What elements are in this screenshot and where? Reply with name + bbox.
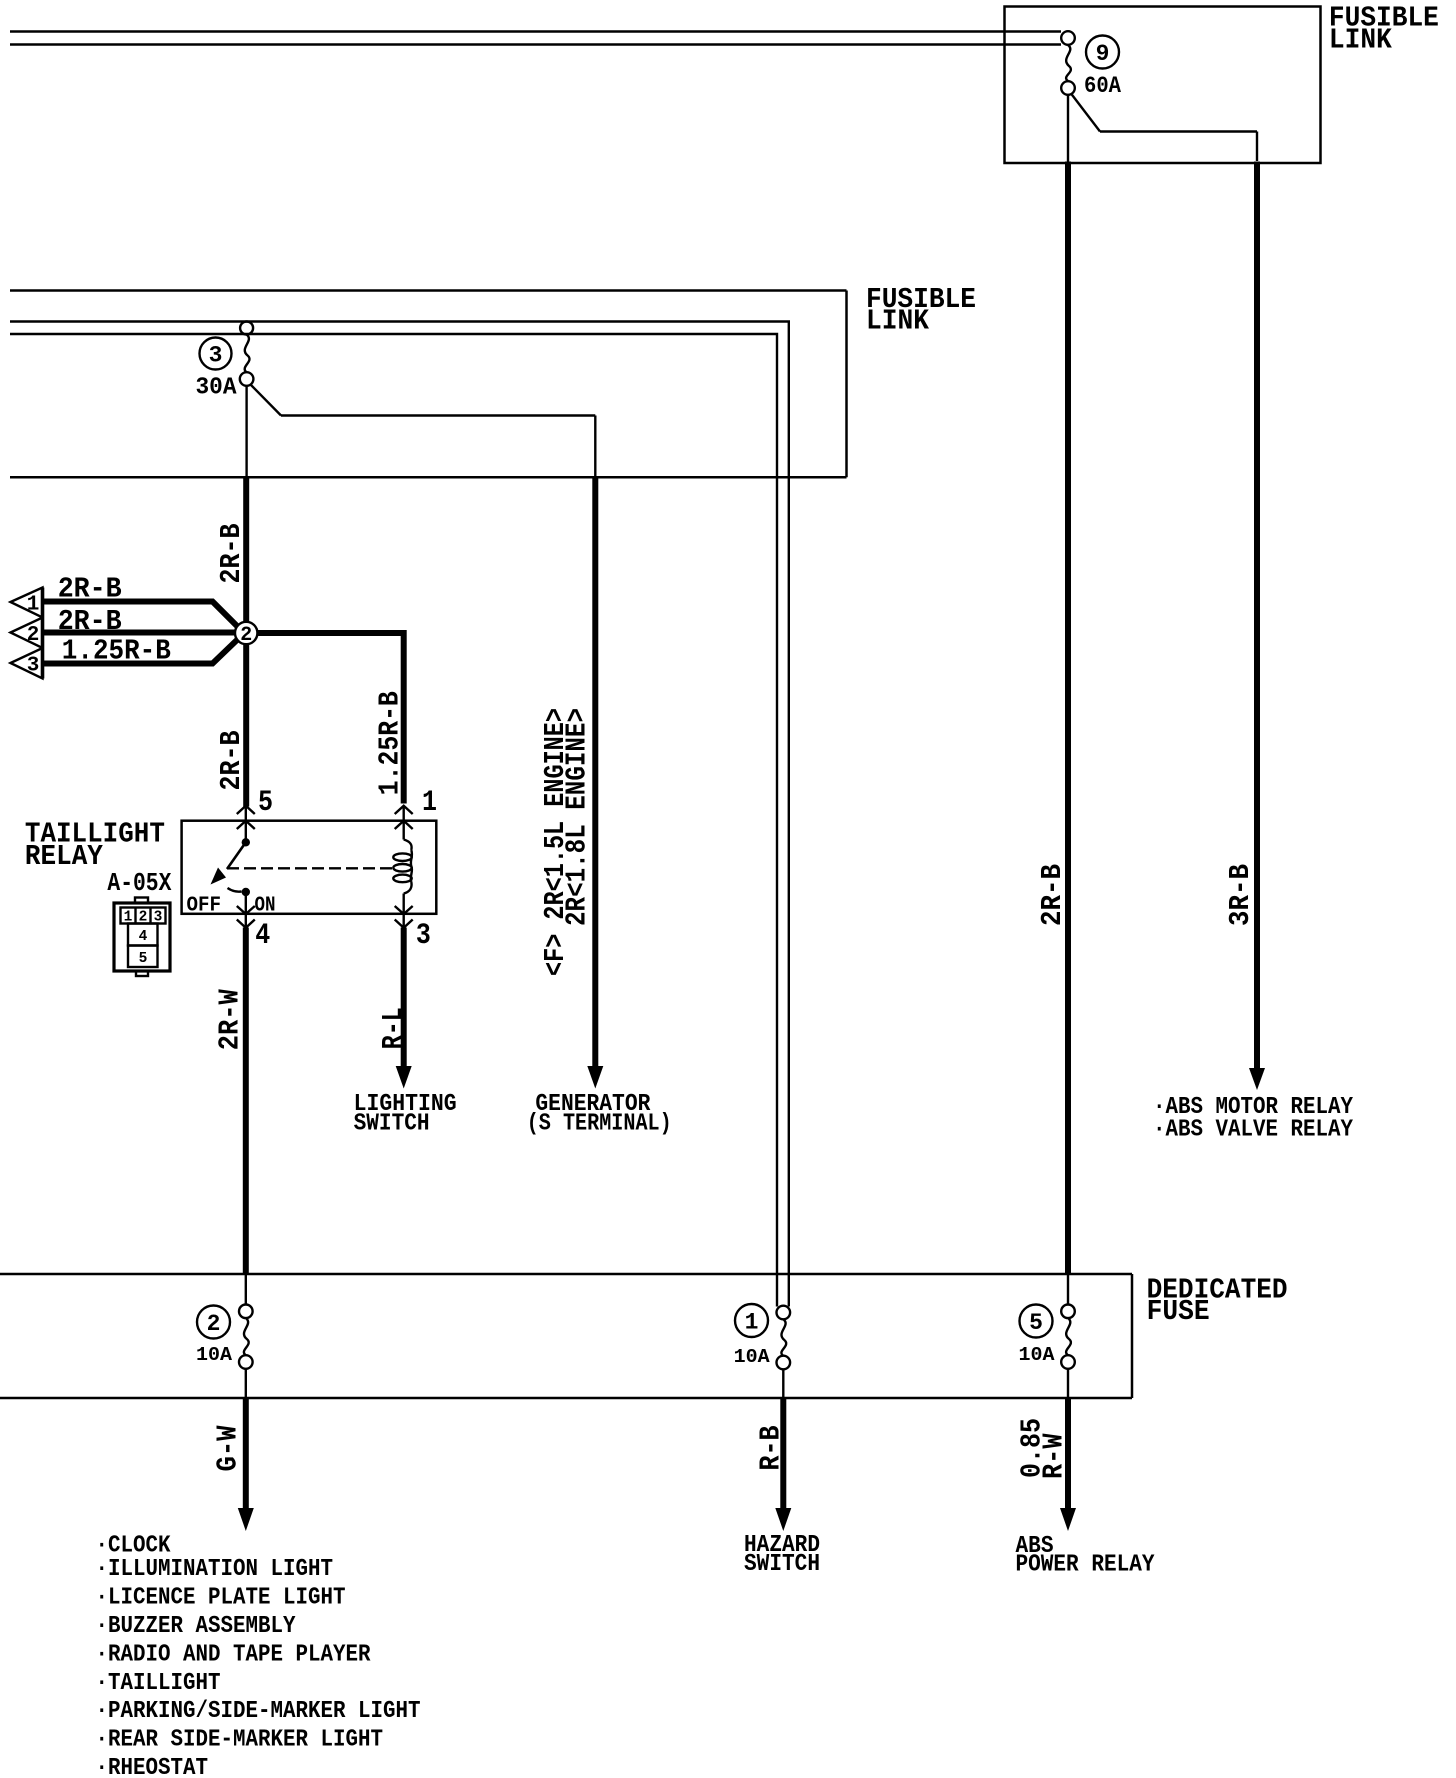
svg-text:10A: 10A bbox=[196, 1344, 233, 1366]
pin number 1 bbox=[422, 786, 437, 820]
text: LIGHTING SWITCH bbox=[354, 1091, 457, 1138]
pin 4 connector arrows bbox=[237, 906, 255, 928]
svg-text:10A: 10A bbox=[734, 1346, 771, 1368]
label 1.25R-B wire3 bbox=[62, 635, 171, 668]
svg-text:R-W: R-W bbox=[1038, 1433, 1071, 1479]
svg-text:1: 1 bbox=[27, 594, 40, 617]
svg-text:·REAR SIDE-MARKER LIGHT: ·REAR SIDE-MARKER LIGHT bbox=[96, 1727, 384, 1754]
wire: fuse 3 dogleg to generator line bbox=[251, 385, 596, 477]
svg-text:·PARKING/SIDE-MARKER LIGHT: ·PARKING/SIDE-MARKER LIGHT bbox=[96, 1698, 421, 1725]
label 2R-B wire2 bbox=[58, 605, 122, 638]
wire: bus line B (inner) bbox=[10, 334, 777, 1307]
connector arrow 2 (left) bbox=[11, 618, 43, 649]
wire 3R-B vertical with arrow to ABS relays bbox=[1254, 162, 1260, 1071]
wire 2 (2R-B) bbox=[44, 630, 240, 636]
text: ABS MOTOR RELAY / ABS VALVE RELAY bbox=[1153, 1094, 1354, 1144]
svg-text:2R-B: 2R-B bbox=[58, 605, 122, 638]
svg-text:SWITCH: SWITCH bbox=[354, 1111, 430, 1138]
svg-text:30A: 30A bbox=[196, 375, 238, 402]
svg-text:(S TERMINAL): (S TERMINAL) bbox=[527, 1111, 672, 1138]
wire R-L (pin 3 to lighting switch) bbox=[401, 928, 407, 1069]
svg-text:4: 4 bbox=[255, 919, 270, 953]
svg-text:3: 3 bbox=[27, 655, 40, 678]
label: FUSIBLE LINK (middle) bbox=[866, 283, 976, 338]
svg-text:2R-B: 2R-B bbox=[58, 573, 122, 606]
connector icon A-05X bbox=[114, 898, 170, 977]
svg-text:A-05X: A-05X bbox=[107, 868, 171, 898]
label 2R-B (right) bbox=[1036, 864, 1069, 926]
pin 5 connector arrows bbox=[237, 806, 255, 842]
wire R-B with arrow (hazard switch) bbox=[780, 1398, 786, 1510]
relay coil bbox=[393, 840, 412, 914]
svg-text:1: 1 bbox=[124, 910, 133, 926]
fuse 1 (10A) bbox=[735, 1304, 790, 1398]
label 2R-W bbox=[214, 989, 247, 1051]
svg-text:1.25R-B: 1.25R-B bbox=[62, 635, 171, 668]
wire G-W with arrow bbox=[243, 1398, 249, 1510]
pin number 5 bbox=[258, 786, 273, 820]
connector arrow 3 (left) bbox=[11, 648, 43, 679]
svg-text:2: 2 bbox=[207, 1311, 221, 1337]
label 0.85 R-W bbox=[1016, 1418, 1071, 1479]
label 2R-B (below node) bbox=[215, 731, 248, 791]
wire 2R-W (pin 4 down to dedicated fuse 2) bbox=[243, 928, 249, 1275]
label <F> 2R<1.5L ENGINE> bbox=[539, 708, 594, 976]
svg-text:·BUZZER ASSEMBLY: ·BUZZER ASSEMBLY bbox=[96, 1613, 297, 1640]
fusible link box (middle) bbox=[10, 291, 847, 478]
svg-text:5: 5 bbox=[139, 951, 148, 967]
pin 1 connector arrows bbox=[395, 806, 413, 840]
wire: battery feed bus (double line, top) bbox=[10, 32, 1061, 45]
svg-text:RELAY: RELAY bbox=[25, 840, 104, 873]
svg-text:·LICENCE PLATE LIGHT: ·LICENCE PLATE LIGHT bbox=[96, 1585, 346, 1612]
arrowhead R-L bbox=[396, 1066, 412, 1089]
pin 3 connector arrows bbox=[395, 906, 413, 928]
svg-text:R-L: R-L bbox=[377, 1007, 410, 1049]
svg-text:1: 1 bbox=[422, 786, 437, 820]
svg-text:2: 2 bbox=[139, 910, 148, 926]
svg-text:·ILLUMINATION LIGHT: ·ILLUMINATION LIGHT bbox=[96, 1556, 334, 1583]
label R-L bbox=[377, 1007, 410, 1049]
svg-text:5: 5 bbox=[1029, 1310, 1043, 1336]
svg-text:ON: ON bbox=[255, 895, 276, 918]
fuse 2 (10A) bbox=[197, 1274, 253, 1398]
svg-text:2R<1.8L ENGINE>: 2R<1.8L ENGINE> bbox=[561, 708, 594, 926]
svg-text:POWER RELAY: POWER RELAY bbox=[1016, 1552, 1156, 1579]
OFF / ON labels bbox=[187, 895, 276, 918]
svg-text:2R-B: 2R-B bbox=[215, 524, 248, 584]
svg-text:FUSE: FUSE bbox=[1147, 1295, 1210, 1328]
wire: fuse 3 down (thin inside box, thick below) bbox=[245, 386, 248, 807]
wire 3 (1.25R-B) bbox=[44, 639, 238, 664]
svg-text:2: 2 bbox=[240, 624, 252, 647]
svg-text:1.25R-B: 1.25R-B bbox=[374, 691, 407, 795]
fusible link 3 (30A) bbox=[200, 322, 254, 386]
svg-text:3: 3 bbox=[416, 919, 431, 953]
pin number 4 bbox=[255, 919, 270, 953]
dashed line bbox=[227, 867, 396, 869]
node 2 junction circle bbox=[235, 622, 257, 644]
svg-text:·RADIO AND TAPE PLAYER: ·RADIO AND TAPE PLAYER bbox=[96, 1642, 372, 1669]
svg-text:·TAILLIGHT: ·TAILLIGHT bbox=[96, 1670, 221, 1697]
svg-text:G-W: G-W bbox=[212, 1425, 245, 1472]
svg-text:2R-B: 2R-B bbox=[215, 731, 248, 791]
svg-text:LINK: LINK bbox=[866, 305, 930, 338]
label: TAILLIGHT RELAY bbox=[25, 817, 172, 898]
text: GENERATOR (S TERMINAL) bbox=[527, 1091, 672, 1138]
fuse 5 (10A) bbox=[1020, 1274, 1075, 1398]
label G-W bbox=[212, 1425, 245, 1472]
svg-text:5: 5 bbox=[258, 786, 273, 820]
fusible link box (top right) bbox=[1005, 7, 1321, 164]
label 3R-B bbox=[1224, 864, 1257, 926]
svg-text:2: 2 bbox=[27, 624, 40, 647]
svg-text:3R-B: 3R-B bbox=[1224, 864, 1257, 926]
pin number 3 bbox=[416, 919, 431, 953]
svg-text:SWITCH: SWITCH bbox=[744, 1551, 820, 1578]
label: DEDICATED FUSE bbox=[1147, 1274, 1288, 1328]
svg-text:9: 9 bbox=[1096, 41, 1110, 67]
wire 2R-B vertical (fuse 9 down to dedicated fuse 5) bbox=[1067, 95, 1069, 1275]
svg-text:3: 3 bbox=[154, 910, 163, 926]
relay box bbox=[182, 821, 437, 914]
text: ABS POWER RELAY bbox=[1016, 1533, 1156, 1579]
label 1.25R-B (vertical) bbox=[374, 691, 407, 795]
label 2R-B wire1 bbox=[58, 573, 122, 606]
numbers in arrows bbox=[27, 594, 40, 678]
arrowhead generator bbox=[587, 1066, 603, 1089]
wire: bus line A (to hazard feed) bbox=[10, 322, 789, 1307]
wire 1 (2R-B) bbox=[44, 602, 238, 628]
arrowhead 3R-B bbox=[1249, 1068, 1265, 1090]
svg-text:·ABS VALVE RELAY: ·ABS VALVE RELAY bbox=[1153, 1117, 1354, 1144]
svg-text:60A: 60A bbox=[1084, 73, 1121, 99]
svg-text:R-B: R-B bbox=[755, 1426, 788, 1471]
dedicated fuse box bbox=[0, 1274, 1132, 1398]
svg-text:10A: 10A bbox=[1019, 1344, 1056, 1366]
text: load list bbox=[96, 1533, 421, 1778]
svg-text:OFF: OFF bbox=[187, 895, 222, 918]
fusible link 9 (60A) bbox=[1061, 31, 1119, 95]
svg-text:4: 4 bbox=[139, 929, 148, 945]
svg-text:1: 1 bbox=[745, 1310, 759, 1336]
wire: generator feed (thick) with arrow bbox=[592, 476, 598, 1068]
label: FUSIBLE LINK (top) bbox=[1329, 2, 1439, 57]
svg-text:LINK: LINK bbox=[1329, 24, 1393, 57]
svg-text:2R-B: 2R-B bbox=[1036, 864, 1069, 926]
label 2R-B (above node) bbox=[215, 524, 248, 584]
label R-B bbox=[755, 1426, 788, 1471]
wire: fuse 9 to 3R-B dogleg bbox=[1071, 94, 1257, 162]
relay switch bbox=[211, 838, 251, 914]
connector arrow 1 (left) bbox=[11, 588, 43, 618]
svg-text:2R-W: 2R-W bbox=[214, 989, 247, 1051]
wire: node 2 right branch (1.25R-B to relay pin 1) bbox=[252, 633, 404, 804]
text: HAZARD SWITCH bbox=[744, 1532, 820, 1578]
svg-text:3: 3 bbox=[209, 343, 223, 369]
svg-text:·RHEOSTAT: ·RHEOSTAT bbox=[96, 1755, 209, 1778]
wire 0.85 R-W with arrow (ABS power relay) bbox=[1065, 1398, 1071, 1510]
